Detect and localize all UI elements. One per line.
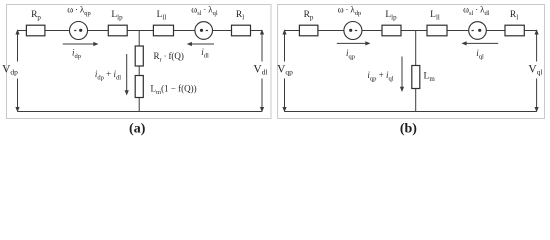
node Vdp terminal arrow (a left) — [15, 29, 19, 112]
wire top (b) — [285, 30, 537, 32]
resistor R_p (a) — [26, 25, 45, 36]
resistor R_l (b) — [505, 25, 524, 36]
panel (a) frame — [7, 5, 272, 119]
wire top (a) — [18, 30, 263, 32]
source omega_sl*lambda_ql circle (a) — [195, 22, 213, 40]
source omega*lambda_dp circle (b) — [344, 22, 362, 40]
inductor L_ll (b) — [427, 25, 447, 36]
inductor L_lp (b) — [382, 25, 401, 36]
resistor R_p (b) — [299, 25, 318, 36]
wire middle branch (a) — [138, 31, 140, 112]
wire bottom (a) — [18, 111, 263, 113]
current arrow i_dp + i_dl (branch a) — [125, 54, 129, 96]
current arrow i_qp + i_ql (branch b) — [400, 57, 404, 93]
inductor L_m(1-f(Q)) (a) — [135, 76, 143, 98]
inductor L_ll (a) — [153, 25, 173, 36]
svg-text:(b): (b) — [400, 122, 417, 137]
wire bottom (b) — [285, 111, 537, 113]
inductor L_lp (a) — [108, 25, 127, 36]
wire middle branch (b) — [415, 31, 417, 112]
node Vql terminal arrow (b right) — [535, 29, 539, 112]
inductor L_m (b) — [412, 66, 420, 89]
panel (b) frame — [278, 5, 545, 119]
source omega_sl*lambda_dl circle (b) — [469, 22, 487, 40]
current arrow i_qp — [337, 41, 371, 45]
resistor R_r*f(Q) (a) — [135, 46, 143, 66]
resistor R_l (a) — [232, 25, 251, 36]
current arrow i_ql — [461, 41, 498, 45]
current arrow i_dl — [187, 42, 214, 46]
source omega*lambda_qp circle (a) — [70, 22, 88, 40]
node Vdl terminal arrow (a right) — [260, 29, 264, 112]
node Vqp terminal arrow (b left) — [282, 29, 286, 112]
svg-text:(a): (a) — [129, 122, 146, 137]
current arrow i_dp — [63, 42, 99, 46]
